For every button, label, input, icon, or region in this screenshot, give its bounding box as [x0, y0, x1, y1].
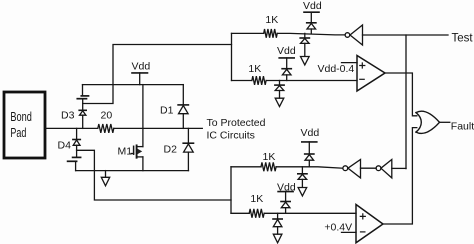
- bond pad: [4, 92, 45, 158]
- wire: rail 1 left: [232, 32, 264, 34]
- wire: rail 2 left: [232, 80, 252, 82]
- svg-text:1K: 1K: [265, 14, 278, 26]
- wire: comparator U3 output to OR gate: [383, 128, 417, 224]
- wire: rail 4 left: [231, 212, 249, 214]
- svg-text:Vdd: Vdd: [277, 45, 296, 57]
- wire: M1 drain up through pad rail to Vdd rail: [142, 85, 144, 147]
- wire: pad rail right (resistor to protected circuits): [114, 127, 203, 129]
- power Vdd main: [132, 61, 151, 85]
- svg-text:1K: 1K: [263, 151, 276, 163]
- wire: M1 source down to ground rail: [142, 157, 144, 171]
- power Vdd clamp1: [303, 0, 322, 22]
- svg-text:Test: Test: [452, 32, 474, 44]
- wire: Vdd rail: [83, 84, 184, 86]
- svg-text:Vdd: Vdd: [303, 0, 322, 12]
- wire: capacitor to D3: [82, 100, 84, 111]
- ground arrow clamp2: [275, 98, 284, 106]
- svg-text:D3: D3: [61, 110, 75, 122]
- op-amp comparator U3: [356, 205, 383, 243]
- svg-text:Pad: Pad: [10, 125, 26, 140]
- svg-text:1K: 1K: [250, 193, 263, 205]
- diode clamp1 upper: [307, 23, 316, 34]
- wire: comparator block splitter (bottom): [230, 167, 232, 214]
- resistor R3 1K: [261, 162, 276, 171]
- inverter U5: [376, 160, 392, 178]
- wire: inverter B input to test branch: [392, 167, 406, 169]
- wire: D4 to capacitor: [76, 150, 78, 157]
- svg-text:Vdd-0.4: Vdd-0.4: [318, 63, 355, 75]
- svg-text:Bond: Bond: [10, 109, 32, 124]
- ground arrow clamp4: [273, 234, 282, 243]
- wire: rail 1 right to inverter output: [277, 33, 345, 35]
- ground arrow clamp1: [301, 57, 310, 65]
- diode D4: [58, 128, 81, 151]
- inverter U4: [343, 160, 361, 178]
- transistor M1: [118, 145, 143, 157]
- svg-text:Fault: Fault: [451, 120, 474, 132]
- diode clamp3 upper: [305, 154, 314, 167]
- svg-text:1K: 1K: [248, 63, 261, 75]
- diode clamp4 upper: [281, 202, 290, 214]
- wire: OR output: [440, 121, 450, 123]
- power Vdd clamp4: [277, 181, 296, 201]
- or gate U6: [416, 111, 440, 133]
- svg-text:20: 20: [101, 110, 113, 122]
- svg-text:D2: D2: [164, 144, 178, 156]
- wire: test branch down to inverter chain: [405, 35, 407, 169]
- wire: test line: [363, 34, 449, 36]
- resistor R1 1K: [264, 29, 278, 38]
- diode D2: [164, 128, 194, 170]
- wire: comparator U2 plus ref stub: [342, 62, 358, 64]
- resistor R2 1K: [252, 76, 266, 85]
- ground arrow clamp3: [298, 188, 307, 196]
- svg-text:Vdd: Vdd: [301, 127, 320, 139]
- diode clamp1 lower: [300, 33, 309, 56]
- svg-text:To Protected: To Protected: [207, 117, 266, 129]
- wire: pad rail left (pad to resistor): [46, 127, 98, 129]
- svg-text:M1: M1: [118, 146, 133, 158]
- svg-text:Vdd: Vdd: [132, 61, 151, 73]
- svg-text:IC Circuits: IC Circuits: [207, 130, 255, 142]
- wire: sense tap 1 (D3 node to comparator block): [83, 45, 232, 104]
- diode clamp2 lower: [275, 81, 284, 99]
- diode D1: [160, 85, 188, 129]
- wire: rail 4 right to comparator plus: [264, 212, 356, 214]
- diode D3: [61, 110, 86, 129]
- wire: comparator block splitter (top): [231, 33, 233, 80]
- power Vdd clamp3: [301, 127, 320, 154]
- wire: rail 3 right to inverter A: [276, 167, 343, 168]
- svg-text:+0.4V: +0.4V: [324, 222, 352, 234]
- op-amp comparator U2: [357, 56, 385, 92]
- svg-text:D1: D1: [160, 105, 174, 117]
- svg-text:D4: D4: [58, 140, 72, 152]
- capacitor C1 (series element above D3): [77, 96, 88, 99]
- wire: between inverters: [361, 167, 377, 169]
- wire: sense tap 2 (D4 node to comparator block): [77, 150, 231, 200]
- ground (pad clamp): [101, 171, 109, 186]
- wire: comparator U2 output to OR gate: [385, 73, 417, 116]
- wire: ground rail: [76, 170, 189, 172]
- diode clamp3 lower: [298, 167, 307, 188]
- wire: comparator U3 minus ref stub: [342, 231, 357, 233]
- diode clamp2 upper: [282, 69, 291, 81]
- wire: rail 2 right to comparator minus: [266, 80, 357, 82]
- wire: Vdd rail down to capacitor: [82, 85, 84, 96]
- wire: rail 3 left: [231, 166, 261, 168]
- capacitor C2 (series element below D4): [68, 157, 81, 161]
- resistor R4 1K: [249, 209, 264, 218]
- inverter U1: [345, 25, 362, 45]
- diode clamp4 lower: [273, 213, 282, 234]
- resistor 20: [98, 124, 114, 133]
- power Vdd clamp2: [277, 45, 296, 68]
- wire: capacitor C2 to ground rail: [75, 162, 77, 171]
